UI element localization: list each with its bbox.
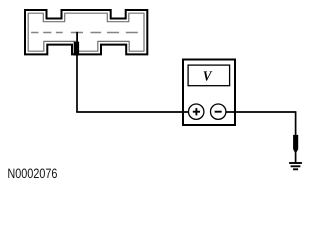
ground symbol G1 (289, 162, 302, 164)
connector C1 outer shell (25, 10, 147, 54)
figure number label N0002076 (8, 169, 57, 179)
connector C1 inner outline (28, 13, 144, 51)
voltmeter U1 case (183, 60, 235, 126)
voltmeter plus terminal (189, 104, 204, 119)
wire from pin to ground symbol (295, 151, 297, 163)
wire from minus lead to ground drop (226, 111, 296, 113)
wire from terminal down (76, 56, 78, 113)
wire down to ground terminal (295, 111, 297, 136)
terminal pin of connector C1 (74, 42, 79, 56)
ground terminal pin (293, 135, 298, 152)
connector pin cavity dashed centerline (31, 32, 138, 34)
wire to voltmeter plus lead (76, 111, 189, 113)
voltmeter V label (204, 71, 213, 80)
wire stub from centerline to terminal (76, 32, 78, 43)
voltmeter minus terminal (211, 104, 226, 119)
voltmeter display window (188, 65, 230, 86)
